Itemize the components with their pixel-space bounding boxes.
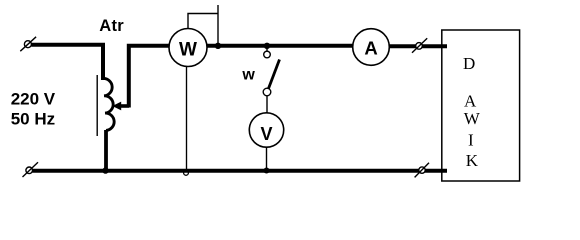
terminal bottom-left [23, 162, 39, 177]
wire switch to voltmeter [266, 96, 268, 113]
svg-text:W: W [464, 109, 481, 128]
wattmeter current line to bottom rail [186, 67, 188, 170]
junction dot right of W [215, 43, 221, 49]
voltmeter V [249, 113, 283, 147]
ammeter A [353, 29, 390, 66]
junction dot coil/bottom rail [102, 167, 108, 173]
svg-text:W: W [179, 40, 197, 61]
terminal bottom-right [415, 163, 429, 178]
junction dot switch branch [264, 43, 270, 49]
svg-text:I: I [468, 130, 474, 149]
wire top-left to autotransformer [32, 45, 104, 80]
terminal top-left [20, 37, 36, 51]
svg-text:D: D [463, 54, 475, 73]
wire W to ammeter [207, 44, 354, 48]
terminal top-right [412, 38, 427, 53]
autotransformer Atr coil [103, 78, 114, 130]
wire stub above junction [217, 5, 219, 44]
svg-text:A: A [464, 91, 477, 110]
junction dot voltmeter/bottom rail [264, 168, 270, 174]
wire coil bottom to bottom rail [104, 130, 108, 171]
label 220 V 50 Hz [11, 90, 56, 129]
bottom rail wire [33, 169, 448, 173]
wire voltmeter to bottom rail [266, 147, 268, 170]
wire ammeter to load box [390, 44, 448, 48]
svg-text:V: V [260, 124, 272, 144]
svg-text:220 V: 220 V [11, 90, 56, 109]
svg-text:w: w [241, 67, 255, 84]
svg-text:A: A [364, 38, 377, 59]
wire wiper tap up and right to wattmeter [129, 46, 170, 108]
svg-text:K: K [466, 151, 479, 170]
load box DAWIK [442, 30, 520, 181]
autotransformer wiper arrow [112, 102, 129, 111]
wattmeter voltage-coil bracket [188, 14, 218, 29]
svg-text:50 Hz: 50 Hz [11, 109, 55, 128]
autotransformer core line [96, 75, 98, 136]
wattmeter W [169, 29, 207, 67]
switch w [263, 47, 279, 96]
svg-text:Atr: Atr [99, 17, 124, 35]
open circle W line on bottom rail [184, 171, 189, 176]
